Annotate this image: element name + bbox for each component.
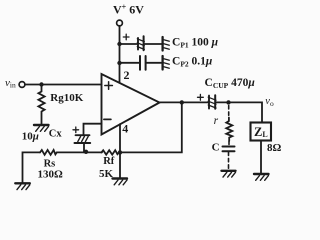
ground (ZL) — [254, 174, 269, 180]
label vin — [5, 77, 16, 90]
ground (Rg) — [34, 125, 49, 131]
ground (CP1) — [163, 37, 170, 51]
op-amp minus input mark — [104, 118, 111, 120]
terminal vin — [19, 82, 25, 88]
resistor Rf — [101, 150, 120, 154]
ground (zobel) — [222, 171, 236, 177]
label CCUP value — [205, 77, 256, 90]
wire vin to op-amp — [25, 84, 102, 86]
wire to CP2 — [120, 62, 140, 64]
wire pin4 down to ground — [119, 124, 121, 178]
label Rs — [44, 159, 56, 170]
resistor Rs — [40, 150, 57, 155]
label CP1 value — [172, 37, 219, 50]
node junction rail-CP1 — [117, 42, 121, 46]
ground (CP2) — [163, 56, 170, 70]
wire dashed zobel bottom — [228, 152, 230, 170]
op-amp U1 — [102, 74, 160, 135]
label ZL value — [267, 142, 282, 154]
svg-text:vo: vo — [265, 96, 274, 108]
svg-text:C: C — [212, 142, 220, 154]
svg-text:CCUP 470μ: CCUP 470μ — [205, 77, 256, 90]
label pin 2 — [124, 68, 130, 82]
label Rf value — [99, 168, 114, 180]
wire dashed zobel top — [228, 106, 230, 118]
ground (pin 4) — [113, 179, 128, 185]
svg-text:Rg10K: Rg10K — [50, 92, 83, 104]
node Vplus label — [113, 3, 144, 17]
node junction Cx-Rs-Rf — [84, 150, 88, 154]
label Rs value — [38, 168, 64, 180]
wire V+ rail — [119, 26, 121, 83]
svg-text:4: 4 — [122, 122, 128, 136]
wire CCUP to vo — [216, 102, 262, 122]
wire CP2 to ground — [147, 62, 162, 64]
label r — [214, 115, 219, 127]
capacitor CP1 — [123, 34, 144, 50]
wire ZL to ground — [260, 141, 262, 174]
svg-text:CP2 0.1μ: CP2 0.1μ — [172, 56, 213, 69]
op-amp plus input mark — [105, 82, 113, 90]
resistor r — [226, 118, 232, 142]
resistor Rg — [38, 85, 44, 125]
svg-text:2: 2 — [124, 68, 130, 82]
wire feedback to output — [120, 102, 182, 152]
label C — [212, 142, 220, 154]
node junction rail-CP2 — [117, 61, 121, 65]
wire op-amp output — [160, 101, 209, 103]
label vo — [265, 96, 274, 108]
label Rf — [103, 156, 115, 167]
wire Rs to node — [57, 151, 102, 153]
terminal V+ — [117, 20, 123, 26]
capacitor C — [223, 147, 235, 152]
svg-text:8Ω: 8Ω — [267, 142, 282, 154]
svg-text:Cx: Cx — [49, 129, 63, 140]
svg-text:r: r — [214, 115, 219, 127]
wire CP1 to ground — [145, 43, 162, 45]
node junction Rf-pin4 — [118, 150, 122, 154]
wire Cx to node — [83, 143, 85, 152]
node junction vin-Rg — [39, 82, 43, 86]
node junction output-feedback — [180, 100, 184, 104]
label Rg value — [50, 92, 83, 104]
capacitor CCUP — [198, 94, 217, 108]
wire Rs left leg — [23, 152, 41, 183]
svg-text:10μ: 10μ — [22, 130, 39, 142]
label ZL — [254, 125, 268, 139]
wire op-amp minus to Cx — [84, 124, 102, 136]
svg-text:130Ω: 130Ω — [38, 168, 64, 180]
label CP2 value — [172, 56, 213, 69]
svg-text:V+ 6V: V+ 6V — [113, 3, 144, 17]
node junction zobel tap — [226, 100, 230, 104]
svg-text:CP1 100 μ: CP1 100 μ — [172, 37, 219, 50]
label Cx value — [22, 129, 63, 143]
wire to CP1 — [120, 43, 138, 45]
label pin 4 — [122, 122, 128, 136]
wire dashed zobel mid — [228, 141, 230, 146]
load ZL box — [251, 123, 272, 141]
svg-text:Rf: Rf — [103, 156, 115, 167]
capacitor Cx — [73, 127, 90, 143]
ground (Rs) — [15, 183, 29, 189]
capacitor CP2 — [140, 56, 146, 70]
svg-text:vin: vin — [5, 77, 16, 90]
